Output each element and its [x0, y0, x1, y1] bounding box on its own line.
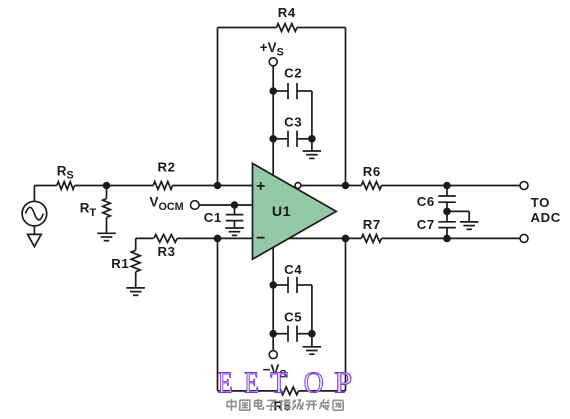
wire: C2-C3 right bus: [311, 91, 313, 139]
svg-text:C3: C3: [284, 115, 302, 130]
wire: left feedback vertical to -IN: [217, 238, 219, 391]
capacitor C4: [273, 262, 312, 293]
wire: input drop: [33, 186, 35, 202]
resistor RT: [80, 186, 111, 220]
wire: bottom feedback net (R5 left segment): [218, 390, 278, 392]
node: RS/RT/R2 junction: [103, 182, 111, 190]
terminal VOCM: [150, 194, 200, 212]
wire: node to R2: [107, 185, 154, 187]
wire: -VS rail: [272, 247, 274, 350]
source V (sine generator): [22, 201, 47, 226]
wire: C4-C5 right bus: [311, 285, 313, 334]
node: +IN/feedback junction: [214, 182, 222, 190]
ground (R1): [126, 288, 144, 295]
wire: RT to ground: [106, 218, 108, 233]
svg-text:R2: R2: [157, 159, 175, 174]
watermark text (Chinese site name): [227, 399, 343, 411]
ground (C1): [225, 228, 244, 235]
node: VOCM/C1 junction: [231, 201, 239, 209]
capacitor C6: [417, 186, 456, 212]
node: rail/C4 junction: [269, 281, 277, 289]
node: C6/C7 midpoint: [443, 208, 451, 216]
supply terminal -VS: [263, 351, 287, 381]
svg-text:+: +: [256, 178, 266, 195]
node: C6 top junction: [443, 182, 451, 190]
svg-text:R3: R3: [157, 244, 175, 259]
wire: R3 to -IN: [177, 237, 252, 239]
svg-text:T: T: [270, 366, 287, 400]
wire: source to ground: [33, 226, 35, 235]
terminal -ADC: [520, 234, 528, 242]
svg-text:U1: U1: [272, 204, 291, 220]
svg-text:R7: R7: [363, 217, 381, 232]
resistor R7: [361, 217, 381, 243]
wire: C7 node to -ADC terminal: [447, 237, 520, 239]
wire: source to RS: [34, 185, 56, 187]
wire: R7 to C7 node: [382, 237, 448, 239]
wire: +OUT to R6: [301, 185, 362, 187]
wire: midpoint to ground: [447, 211, 469, 221]
wire: R2 to +IN: [173, 185, 253, 187]
resistor RS: [57, 163, 75, 189]
watermark text EETOP: [218, 365, 352, 400]
svg-text:R6: R6: [363, 164, 381, 179]
node: C3 right junction: [308, 135, 316, 143]
ground (C6/C7 midpoint): [460, 222, 479, 229]
resistor R2: [153, 159, 175, 189]
wire: right feedback vertical to +OUT: [345, 28, 347, 186]
capacitor C1: [204, 205, 244, 228]
node: C7 bottom junction: [443, 235, 451, 243]
node: -OUT/feedback junction: [342, 235, 350, 243]
resistor R4: [276, 5, 297, 32]
svg-text:O: O: [304, 366, 324, 400]
svg-text:C5: C5: [284, 310, 302, 325]
node: +OUT tap (open circle on U1 edge): [295, 183, 301, 189]
node: rail/C5 junction: [269, 330, 277, 338]
capacitor C2: [273, 65, 312, 99]
wire: VOCM to op-amp: [199, 204, 253, 206]
supply terminal +VS: [260, 40, 284, 66]
terminal +ADC: [520, 182, 528, 190]
wire: top feedback net (R4 right segment): [297, 27, 346, 29]
capacitor C7: [417, 211, 456, 238]
wire: top feedback net (R4 left segment): [218, 27, 277, 29]
wire: R1 to ground: [135, 272, 137, 288]
capacitor C5: [273, 310, 312, 342]
ground (source, open triangle): [28, 234, 42, 246]
svg-text:C6: C6: [417, 194, 435, 209]
wire: right feedback vertical to -OUT: [345, 238, 347, 391]
node: +VS/C2 junction: [269, 87, 277, 95]
node: C5 right junction: [308, 330, 316, 338]
resistor R5: [273, 387, 298, 414]
svg-text:C2: C2: [284, 65, 302, 80]
capacitor C3: [273, 115, 312, 147]
wire: bottom feedback net (R5 right segment): [299, 390, 346, 392]
svg-text:ADC: ADC: [531, 210, 561, 225]
node: -IN/feedback junction: [214, 235, 222, 243]
svg-text:C7: C7: [417, 217, 435, 232]
svg-text:E: E: [218, 366, 233, 401]
ground (RT): [97, 233, 116, 240]
wire: +VS rail: [272, 65, 274, 175]
ground (C5 decoupling): [303, 334, 322, 355]
svg-text:R1: R1: [111, 256, 129, 271]
wire: left feedback vertical to +IN: [217, 28, 219, 186]
node: +OUT/feedback junction: [342, 182, 350, 190]
svg-text:P: P: [334, 365, 352, 399]
wire: R6 to C6 node: [382, 185, 448, 187]
svg-text:C1: C1: [204, 210, 222, 225]
wire: C6 node to +ADC terminal: [447, 185, 520, 187]
resistor R1: [111, 238, 140, 271]
svg-text:R4: R4: [278, 5, 296, 20]
resistor R3: [154, 235, 177, 259]
ground (C3 decoupling): [303, 139, 322, 159]
svg-text:E: E: [244, 366, 259, 401]
op-amp U1: [253, 163, 337, 259]
svg-text:C4: C4: [284, 262, 302, 277]
label TO ADC: [531, 195, 561, 225]
wire: -OUT to R7: [289, 237, 362, 239]
node: rail/C3 junction: [269, 135, 277, 143]
wire: R1 corner to R3: [136, 237, 154, 239]
wire: RS to RT node: [75, 185, 107, 187]
resistor R6: [361, 164, 381, 190]
svg-text:−: −: [256, 230, 266, 247]
svg-text:TO: TO: [531, 195, 550, 210]
